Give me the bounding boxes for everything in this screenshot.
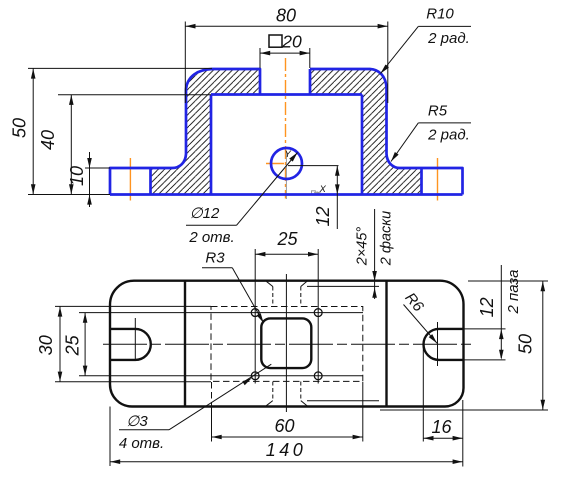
svg-text:2 отв.: 2 отв. [188,229,234,246]
svg-text:10: 10 [67,166,87,186]
svg-text:80: 80 [276,6,296,26]
svg-text:50: 50 [516,334,536,354]
svg-text:R3: R3 [205,250,225,267]
svg-text:R10: R10 [426,6,454,23]
svg-text:30: 30 [36,335,56,355]
svg-text:R5: R5 [428,103,448,120]
svg-text:∅3: ∅3 [126,413,148,430]
svg-text:4 отв.: 4 отв. [119,435,164,452]
svg-text:60: 60 [274,416,294,436]
svg-text:2 рад.: 2 рад. [427,127,470,144]
svg-text:2×45°: 2×45° [355,227,371,267]
svg-text:2 фаски: 2 фаски [379,211,395,266]
svg-text:2 рад.: 2 рад. [427,30,470,47]
svg-text:140: 140 [266,440,307,460]
svg-text:20: 20 [281,32,302,52]
svg-text:12: 12 [477,297,497,317]
svg-text:40: 40 [38,130,58,150]
svg-text:25: 25 [62,334,82,356]
svg-text:12: 12 [313,206,333,226]
svg-text:2 паза: 2 паза [505,270,522,315]
svg-text:25: 25 [276,229,298,249]
svg-text:16: 16 [431,417,452,437]
svg-text:∅12: ∅12 [190,205,220,222]
svg-text:50: 50 [9,118,29,138]
